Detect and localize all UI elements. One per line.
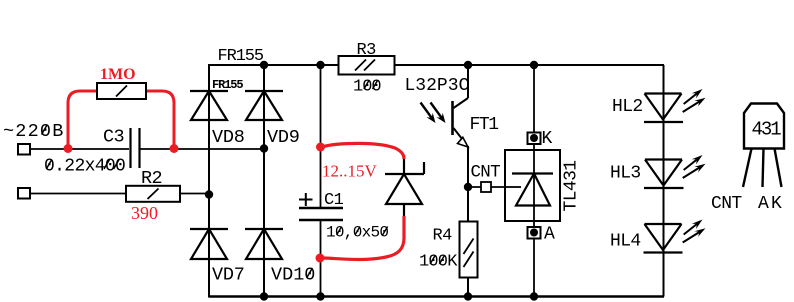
svg-text:K: K — [542, 129, 553, 149]
svg-text:CNT: CNT — [471, 163, 501, 183]
node TL431 top bus — [530, 61, 538, 69]
node red top — [316, 143, 325, 152]
node R4 bottom bus — [464, 292, 472, 300]
wire red zener loop bottom — [321, 216, 404, 260]
emitter arrowhead — [458, 137, 469, 147]
LED HL4 — [644, 224, 683, 253]
light arrow 1 into FT1 — [421, 103, 436, 124]
zener VD 12..15V — [385, 155, 424, 218]
diode VD10 — [245, 229, 283, 259]
svg-text:CNT: CNT — [711, 194, 742, 214]
node CNT junction — [464, 183, 472, 191]
svg-text:431: 431 — [752, 119, 782, 141]
HL2 emission arrows — [683, 89, 706, 112]
svg-text:C3: C3 — [103, 127, 124, 148]
HL3 emission arrows — [683, 155, 706, 178]
node C1 top bus — [316, 61, 324, 69]
diode VD8 — [190, 91, 228, 120]
wire C1 branch vertical — [320, 65, 322, 207]
svg-text:100K: 100K — [419, 253, 458, 272]
resistor R3 — [339, 56, 395, 75]
svg-text:A: A — [758, 194, 769, 214]
svg-text:R4: R4 — [433, 227, 453, 246]
capacitor C1 — [299, 208, 343, 220]
svg-text:1MO: 1MO — [100, 66, 136, 83]
svg-text:C1: C1 — [324, 191, 344, 210]
capacitor C3 — [131, 128, 140, 168]
svg-text:FR155: FR155 — [218, 47, 264, 66]
svg-text:VD8: VD8 — [212, 127, 245, 148]
package 431 TO-92 — [744, 104, 784, 149]
wire R2 to bridge — [180, 193, 209, 195]
terminal input top — [18, 144, 30, 155]
resistor R2 — [126, 186, 180, 202]
wire bridge right column — [263, 64, 265, 298]
svg-text:L32P3C: L32P3C — [405, 76, 470, 96]
wire LED column — [663, 65, 665, 297]
wire C3 to bridge node — [141, 148, 265, 150]
package legs — [743, 149, 782, 188]
svg-text:A: A — [544, 225, 555, 245]
resistor R1 1MO (red leads) — [68, 91, 97, 147]
phototransistor FT1 — [453, 65, 469, 297]
terminal input bottom — [18, 188, 30, 199]
label ~220B — [3, 121, 65, 142]
node red bottom — [316, 254, 325, 263]
node top bus VD9 — [260, 61, 268, 69]
svg-text:12..15V: 12..15V — [322, 162, 378, 181]
wire CNT to TL431 — [468, 186, 521, 188]
node R2-VD8 junction — [205, 190, 213, 198]
svg-text:HL4: HL4 — [610, 232, 641, 252]
svg-text:VD7: VD7 — [212, 265, 245, 286]
svg-text:0.22x400: 0.22x400 — [44, 157, 125, 177]
wire bridge left column — [208, 64, 210, 298]
svg-text:390: 390 — [131, 203, 158, 223]
LED HL2 — [644, 94, 683, 123]
wire AC top to C3 — [30, 148, 129, 150]
pin K square — [528, 133, 541, 145]
node FT1 top bus — [464, 61, 472, 69]
svg-text:HL2: HL2 — [612, 97, 643, 117]
wire red zener loop top — [321, 143, 404, 159]
wire bottom bus — [209, 295, 664, 297]
node TL431 bottom bus — [530, 292, 538, 300]
pin CNT square — [481, 182, 491, 192]
svg-text:VD9: VD9 — [267, 127, 300, 148]
resistor R4 — [460, 222, 478, 278]
light arrow 2 into FT1 — [431, 103, 446, 124]
op-amp U1 TL431 body — [505, 150, 560, 221]
svg-text:HL3: HL3 — [610, 164, 641, 184]
svg-text:R2: R2 — [141, 168, 162, 189]
node C3-VD9 junction — [260, 144, 268, 152]
svg-text:K: K — [771, 194, 782, 214]
svg-text:~220B: ~220B — [3, 121, 65, 142]
diode VD9 — [245, 91, 283, 120]
wire top bus — [209, 64, 664, 66]
diode VD7 — [190, 229, 228, 259]
svg-text:R3: R3 — [357, 41, 377, 60]
svg-text:TL431: TL431 — [561, 160, 581, 211]
wire AC bottom to R2 — [30, 193, 126, 195]
LED HL3 — [644, 160, 684, 189]
pin A square — [528, 227, 541, 239]
node bottom bus VD10 — [260, 292, 268, 300]
wire TL431 column — [533, 65, 535, 297]
HL4 emission arrows — [683, 220, 706, 243]
node C1 bottom bus — [316, 292, 324, 300]
svg-text:FT1: FT1 — [470, 115, 499, 135]
